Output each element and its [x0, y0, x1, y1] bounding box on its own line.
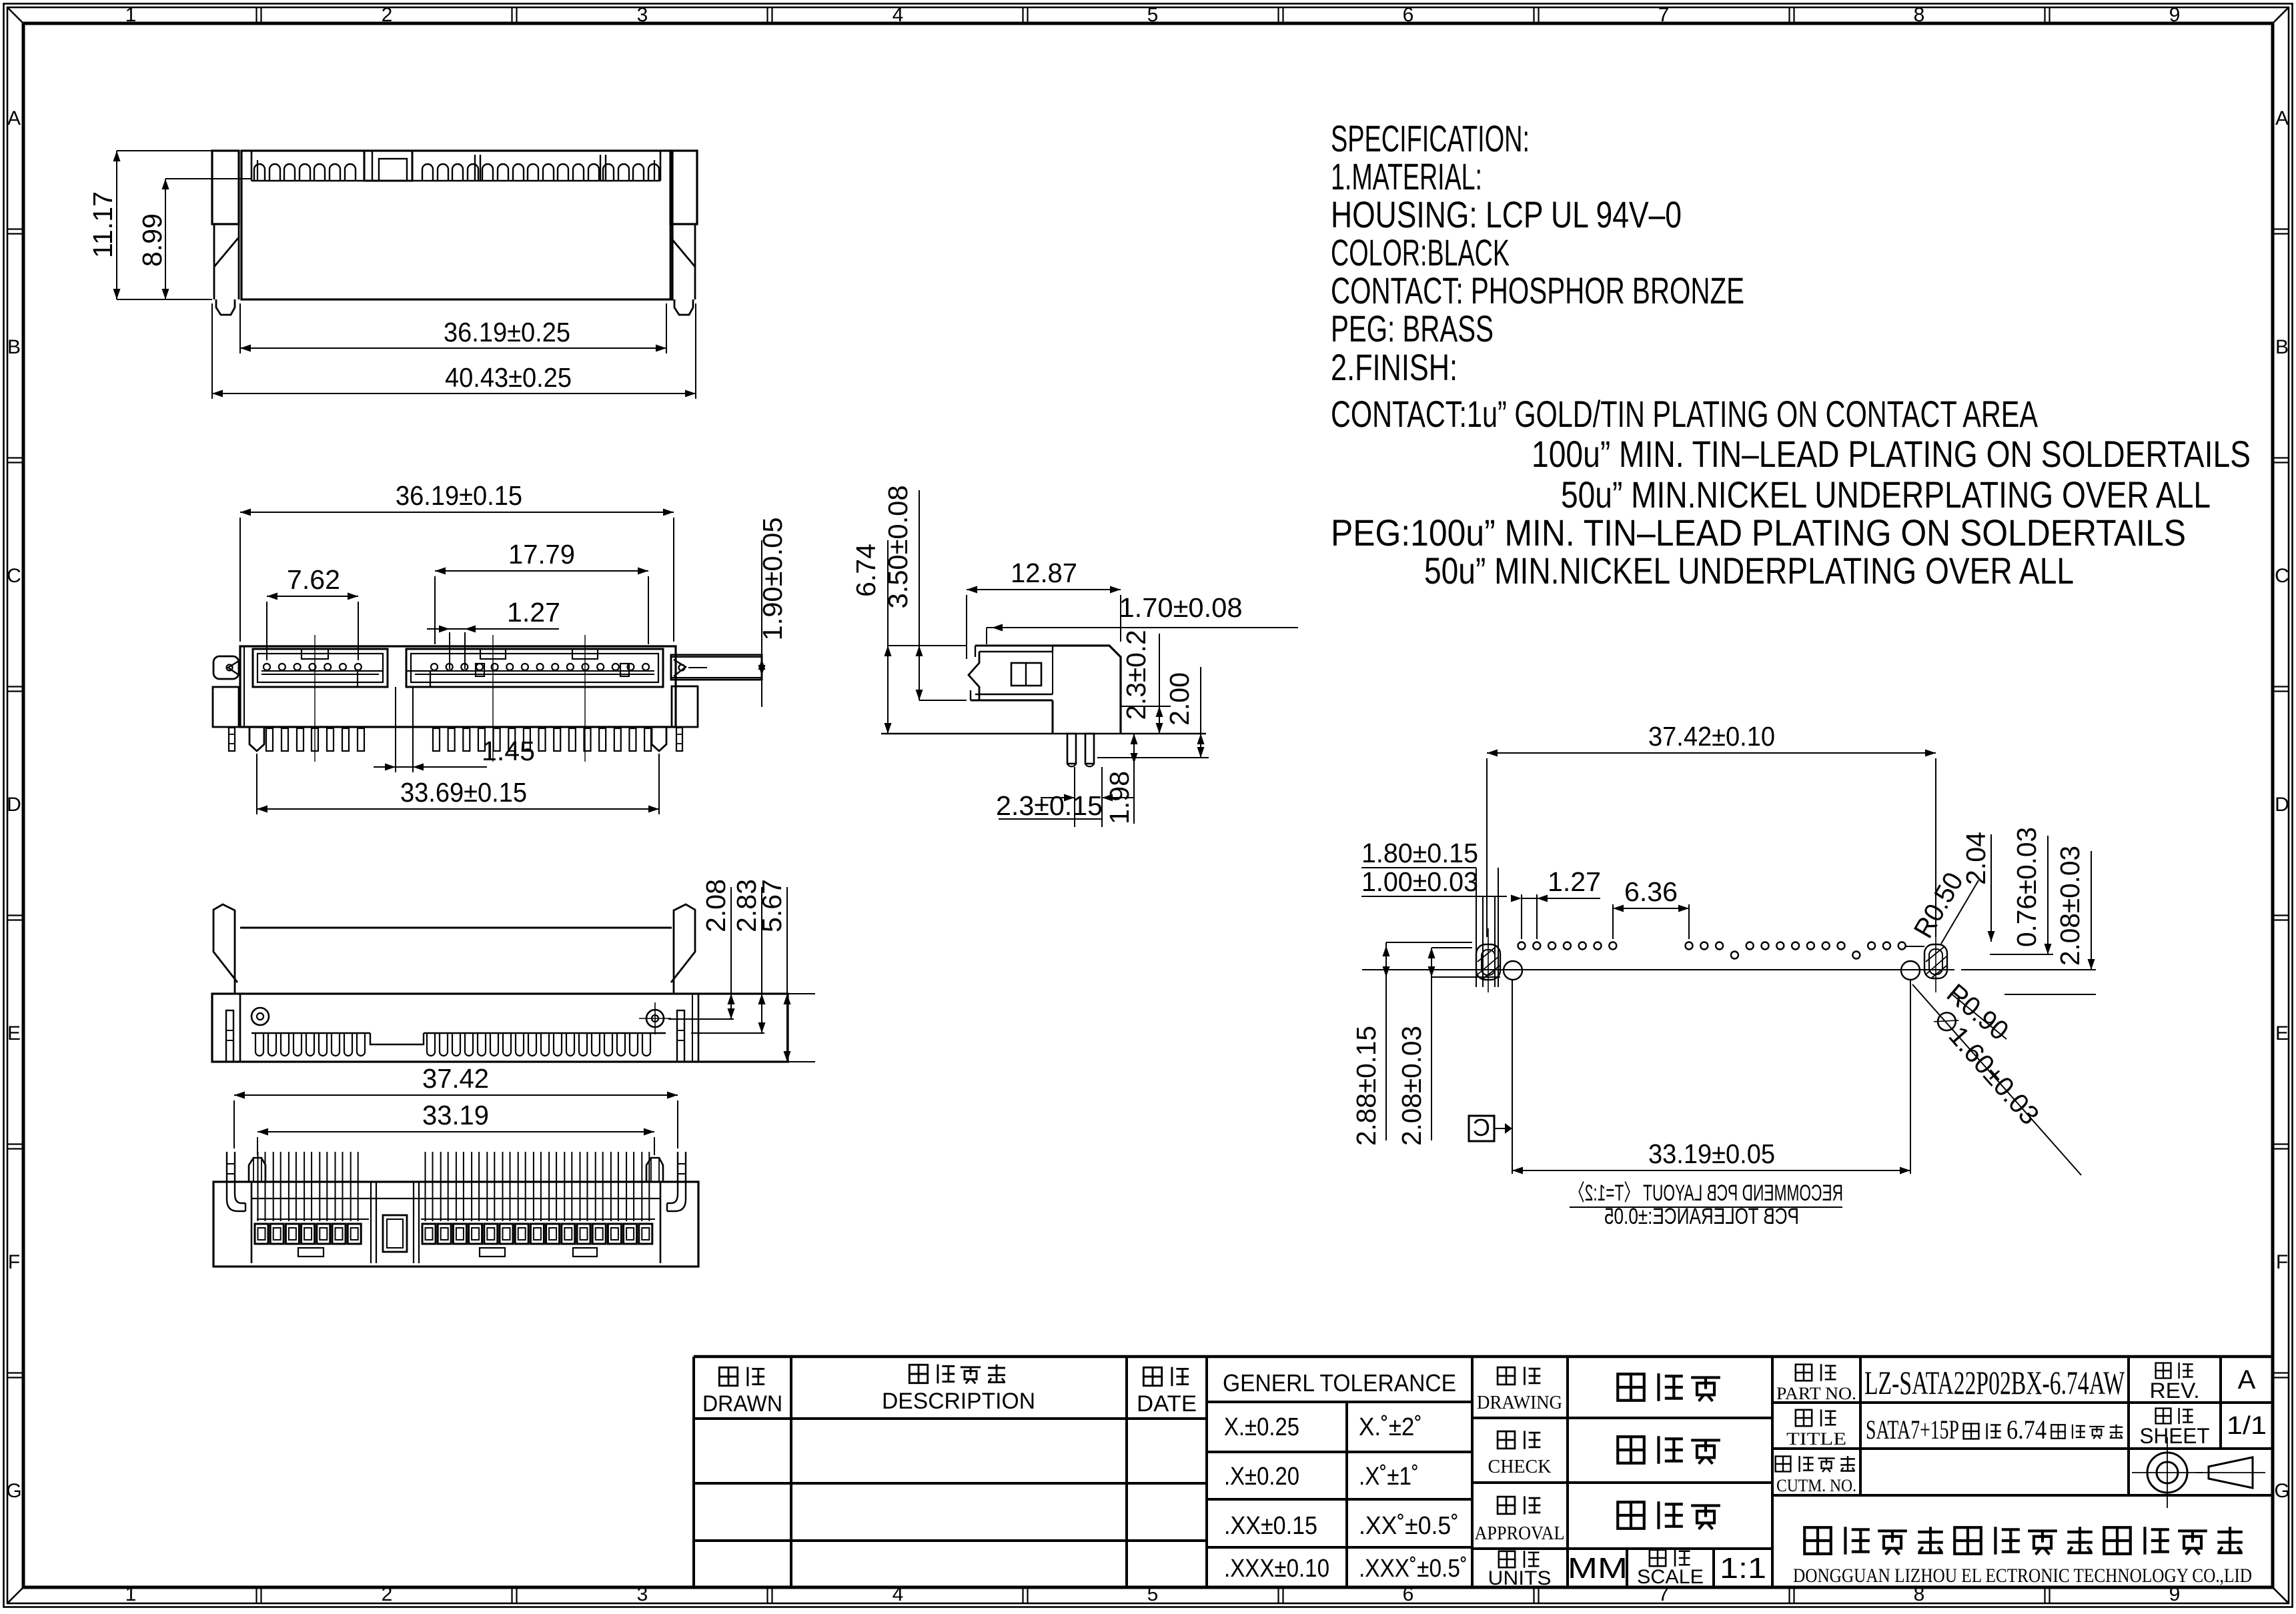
- dimension 37.42±0.10: [1487, 721, 1936, 937]
- svg-text:GENERL TOLERANCE: GENERL TOLERANCE: [1223, 1369, 1456, 1397]
- dimension 11.17: [87, 151, 212, 299]
- svg-text:3.50±0.08: 3.50±0.08: [883, 486, 913, 609]
- svg-text:1.80±0.15: 1.80±0.15: [1361, 838, 1478, 868]
- svg-text:DESCRIPTION: DESCRIPTION: [882, 1389, 1035, 1414]
- svg-text:CUTM. NO.: CUTM. NO.: [1776, 1476, 1856, 1495]
- dimensions 2.08 / 2.83 / 5.67: [668, 879, 815, 1062]
- svg-text:SPECIFICATION:: SPECIFICATION:: [1331, 117, 1530, 159]
- svg-text:2.3±0.15: 2.3±0.15: [996, 790, 1103, 821]
- dimension 1.27 (pcb): [1511, 866, 1601, 939]
- svg-text:.X±0.20: .X±0.20: [1224, 1463, 1299, 1491]
- svg-text:A: A: [7, 107, 21, 129]
- svg-text:2.88±0.15: 2.88±0.15: [1351, 1026, 1381, 1146]
- svg-text:1.00±0.03: 1.00±0.03: [1361, 866, 1478, 897]
- svg-text:DRAWING: DRAWING: [1477, 1393, 1562, 1413]
- svg-text:HOUSING: LCP UL 94V–0: HOUSING: LCP UL 94V–0: [1331, 193, 1682, 235]
- svg-text:37.42±0.10: 37.42±0.10: [1648, 721, 1775, 752]
- svg-text:F: F: [2276, 1251, 2288, 1273]
- dimension 36.19±0.25: [240, 303, 666, 353]
- svg-text:A: A: [2238, 1365, 2256, 1395]
- svg-text:G: G: [6, 1480, 21, 1502]
- title block header labels: [702, 1365, 1456, 1417]
- tolerance values: [1224, 1413, 1468, 1583]
- svg-text:.XXX±0.10: .XXX±0.10: [1224, 1555, 1329, 1583]
- svg-text:9: 9: [2169, 4, 2181, 26]
- part number block: [1776, 1363, 2267, 1495]
- svg-text:1.27: 1.27: [507, 597, 560, 628]
- svg-text:6.74: 6.74: [850, 544, 881, 597]
- svg-text:6: 6: [1403, 4, 1414, 26]
- svg-text:A: A: [2275, 107, 2289, 129]
- connector bottom view: [213, 1152, 698, 1267]
- svg-text:C: C: [1473, 1114, 1490, 1141]
- datum C box: [1469, 980, 1512, 1174]
- svg-text:2: 2: [382, 1583, 393, 1605]
- dimension 1.70±0.08: [987, 592, 1298, 644]
- svg-text:B: B: [2275, 336, 2289, 358]
- dimension 2.3±0.2: [1121, 630, 1171, 734]
- svg-text:1.27: 1.27: [1548, 866, 1601, 897]
- svg-text:5.67: 5.67: [756, 879, 787, 932]
- svg-text:DONGGUAN LIZHOU EL ECTRONIC TE: DONGGUAN LIZHOU EL ECTRONIC TECHNOLOGY C…: [1793, 1565, 2252, 1587]
- svg-text:SCALE: SCALE: [1637, 1566, 1704, 1588]
- svg-text:7: 7: [1658, 4, 1670, 26]
- dimension 7.62: [267, 564, 358, 660]
- svg-text:E: E: [2275, 1022, 2289, 1044]
- svg-text:33.19: 33.19: [422, 1100, 489, 1130]
- svg-text:3: 3: [637, 1583, 648, 1605]
- svg-text:5: 5: [1147, 4, 1159, 26]
- company name: [1793, 1527, 2252, 1587]
- svg-text:3: 3: [637, 4, 648, 26]
- mirrored pcb layout note: [1570, 1180, 1843, 1229]
- svg-text:12.87: 12.87: [1011, 558, 1077, 588]
- svg-text:CONTACT:1u” GOLD/TIN PLATING: CONTACT:1u” GOLD/TIN PLATING ON CONTACT …: [1331, 393, 2038, 435]
- svg-text:2.FINISH:: 2.FINISH:: [1331, 346, 1458, 388]
- dimension 2.08±0.03 (right): [1961, 846, 2096, 994]
- svg-text:7.62: 7.62: [287, 564, 340, 595]
- svg-text:50u” MIN.NICKEL UNDERPLATING: 50u” MIN.NICKEL UNDERPLATING OVER ALL: [1561, 474, 2211, 516]
- svg-text:1:1: 1:1: [1720, 1552, 1766, 1585]
- svg-text:1/1: 1/1: [2227, 1412, 2267, 1440]
- hole row leader to pad: [1905, 946, 1924, 947]
- svg-text:33.69±0.15: 33.69±0.15: [400, 777, 527, 808]
- svg-text:CONTACT: PHOSPHOR BRONZE: CONTACT: PHOSPHOR BRONZE: [1331, 269, 1744, 311]
- svg-text:C: C: [2275, 565, 2289, 587]
- svg-text:8: 8: [1914, 4, 1925, 26]
- svg-text:50u” MIN.NICKEL UNDERPLATING: 50u” MIN.NICKEL UNDERPLATING OVER ALL: [1424, 550, 2074, 592]
- dimension 40.43±0.25: [212, 303, 696, 399]
- svg-text:8.99: 8.99: [137, 213, 167, 267]
- svg-text:2.08±0.03: 2.08±0.03: [2055, 846, 2085, 966]
- svg-text:SATA7+15P: SATA7+15P: [1866, 1415, 1959, 1445]
- svg-text:1: 1: [125, 1583, 137, 1605]
- svg-text:6.36: 6.36: [1624, 876, 1678, 907]
- dimension 12.87: [967, 558, 1121, 659]
- dimension 2.88±0.15: [1351, 946, 1390, 1146]
- svg-text:.XX±0.15: .XX±0.15: [1224, 1512, 1317, 1540]
- svg-text:2.04: 2.04: [1960, 832, 1991, 885]
- dimension 36.19±0.15: [240, 480, 674, 642]
- svg-text:SHEET: SHEET: [2140, 1424, 2210, 1448]
- svg-text:UNITS: UNITS: [1488, 1567, 1552, 1589]
- recommended PCB layout: [1362, 928, 1954, 992]
- dimension 37.42: [234, 1063, 678, 1148]
- svg-text:LZ-SATA22P02BX-6.74AW: LZ-SATA22P02BX-6.74AW: [1864, 1364, 2125, 1401]
- svg-text:.XXX˚±0.5˚: .XXX˚±0.5˚: [1359, 1555, 1468, 1583]
- svg-text:COLOR:BLACK: COLOR:BLACK: [1331, 231, 1510, 273]
- title block table: [694, 1357, 2272, 1588]
- svg-text:E: E: [7, 1022, 21, 1044]
- svg-text:37.42: 37.42: [422, 1063, 489, 1094]
- dimension 1.90±0.05: [757, 518, 788, 708]
- svg-text:PCB TOLERANCE:±0.05: PCB TOLERANCE:±0.05: [1604, 1204, 1799, 1229]
- svg-text:0.76±0.03: 0.76±0.03: [2011, 827, 2042, 947]
- svg-text:1.70±0.08: 1.70±0.08: [1119, 592, 1243, 623]
- svg-text:CHECK: CHECK: [1488, 1457, 1552, 1477]
- svg-text:2.08±0.03: 2.08±0.03: [1396, 1026, 1427, 1146]
- dimension 1.45: [374, 687, 535, 772]
- svg-text:.XX˚±0.5˚: .XX˚±0.5˚: [1359, 1512, 1459, 1540]
- dimension 1.00±0.03: [1361, 866, 1507, 987]
- third angle projection symbol: [2132, 1437, 2265, 1508]
- svg-text:1.90±0.05: 1.90±0.05: [757, 518, 788, 641]
- dimension 2.08±0.03 (left): [1396, 948, 1436, 1146]
- svg-text:4: 4: [893, 4, 904, 26]
- svg-text:2.08: 2.08: [700, 879, 731, 932]
- dimension 1.80±0.15: [1361, 838, 1498, 987]
- svg-text:DATE: DATE: [1137, 1391, 1197, 1417]
- svg-text:MM: MM: [1568, 1552, 1628, 1585]
- dimension 33.19±0.05: [1512, 980, 1910, 1174]
- svg-text:40.43±0.25: 40.43±0.25: [445, 362, 572, 393]
- specification text block: [1331, 117, 2251, 592]
- svg-text:F: F: [8, 1251, 20, 1273]
- svg-text:6.74: 6.74: [2006, 1415, 2047, 1445]
- svg-text:100u” MIN. TIN–LEAD PLATING: 100u” MIN. TIN–LEAD PLATING ON SOLDERTAI…: [1532, 433, 2251, 475]
- connector front view: [213, 635, 762, 762]
- dimension 0.76±0.03: [1990, 827, 2053, 954]
- svg-text:1.45: 1.45: [482, 736, 535, 766]
- dimension 1.98: [1104, 734, 1138, 824]
- svg-text:D: D: [7, 794, 21, 816]
- svg-text:REV.: REV.: [2150, 1379, 2200, 1403]
- dimension 6.74: [850, 540, 967, 734]
- svg-text:D: D: [2275, 794, 2289, 816]
- svg-text:X.±0.25: X.±0.25: [1224, 1413, 1299, 1441]
- diameter 1.60±0.03: [1912, 984, 2081, 1175]
- svg-text:17.79: 17.79: [508, 539, 575, 570]
- svg-text:TITLE: TITLE: [1786, 1429, 1846, 1449]
- connector side view: [881, 646, 1206, 766]
- svg-text:36.19±0.25: 36.19±0.25: [444, 317, 570, 347]
- dimension 17.79: [435, 539, 648, 644]
- dimension 33.69±0.15: [257, 754, 659, 814]
- svg-text:4: 4: [893, 1583, 904, 1605]
- dimension 33.19: [257, 1100, 654, 1155]
- dimension 8.99: [137, 179, 251, 299]
- svg-text:5: 5: [1147, 1583, 1159, 1605]
- svg-text:G: G: [2274, 1480, 2289, 1502]
- svg-text:DRAWN: DRAWN: [702, 1391, 782, 1417]
- svg-text:6: 6: [1403, 1583, 1414, 1605]
- dimension 2.00: [1097, 667, 1209, 758]
- svg-text:11.17: 11.17: [87, 191, 118, 258]
- svg-text:X.˚±2˚: X.˚±2˚: [1359, 1413, 1422, 1441]
- svg-text:36.19±0.15: 36.19±0.15: [396, 480, 522, 511]
- front view solder legs: [249, 727, 666, 751]
- svg-text:2.3±0.2: 2.3±0.2: [1121, 630, 1151, 720]
- svg-text:33.19±0.05: 33.19±0.05: [1648, 1138, 1775, 1169]
- svg-text:APPROVAL: APPROVAL: [1475, 1523, 1565, 1544]
- svg-text:B: B: [7, 336, 21, 358]
- svg-text:1: 1: [125, 4, 137, 26]
- svg-text:1.MATERIAL:: 1.MATERIAL:: [1331, 155, 1482, 197]
- svg-text:2.00: 2.00: [1164, 672, 1195, 726]
- dimension 6.36: [1613, 876, 1689, 939]
- approval block labels and names: [1475, 1367, 1767, 1589]
- connector top view: [212, 151, 697, 315]
- svg-text:PART NO.: PART NO.: [1776, 1384, 1856, 1403]
- svg-text:C: C: [7, 565, 21, 587]
- svg-text:RECOMMEND PCB LAYOUT 〈T=1:2: RECOMMEND PCB LAYOUT 〈T=1:2〉: [1570, 1180, 1843, 1206]
- radius R0.50: [1908, 867, 1978, 944]
- connector rear view: [212, 904, 788, 1062]
- dimension 3.50±0.08: [883, 486, 967, 701]
- svg-text:PEG: BRASS: PEG: BRASS: [1331, 307, 1494, 349]
- svg-text:.X˚±1˚: .X˚±1˚: [1359, 1463, 1419, 1491]
- svg-text:2: 2: [382, 4, 393, 26]
- dimension 2.3±0.15: [996, 767, 1134, 827]
- radius R0.90: [1941, 978, 2015, 1046]
- dimension 1.27: [427, 597, 560, 669]
- svg-text:PEG:100u” MIN. TIN–LEAD PLA: PEG:100u” MIN. TIN–LEAD PLATING ON SOLDE…: [1331, 512, 2186, 554]
- dimension 2.04: [1960, 832, 1995, 942]
